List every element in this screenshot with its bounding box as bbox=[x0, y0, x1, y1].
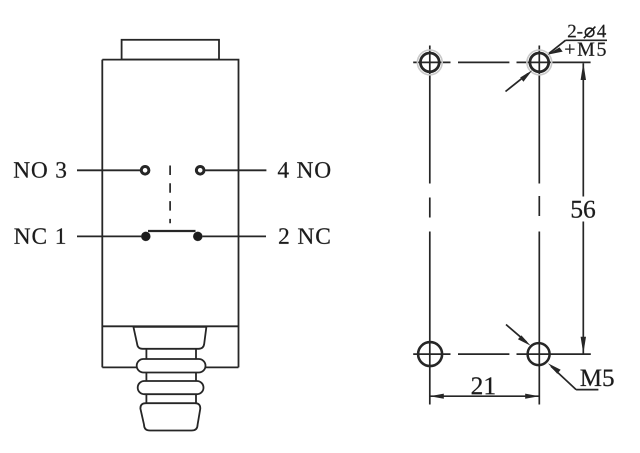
dimension 56 line bbox=[582, 63, 584, 353]
vertical centerline right bbox=[538, 46, 540, 405]
label 4 NO bbox=[278, 162, 330, 178]
arrow up (56 top) bbox=[581, 63, 586, 80]
plunger bottom cap bbox=[140, 403, 200, 430]
body lower divider line bbox=[102, 325, 238, 327]
plunger ring 2 bbox=[138, 381, 204, 394]
leader arrow at bottom-right hole lower edge bbox=[548, 363, 561, 373]
body bottom edge bbox=[102, 366, 137, 368]
tap arrow lower-left of top-right hole bbox=[506, 74, 529, 92]
plunger neck 1 bbox=[145, 349, 147, 360]
NC 2 terminal line right bbox=[203, 235, 267, 237]
arrow left (21) bbox=[430, 394, 444, 399]
leader arrow at top-right hole upper edge bbox=[547, 47, 562, 54]
NO 4 terminal line right bbox=[204, 169, 266, 171]
hole top-right bbox=[530, 53, 549, 72]
diameter symbol bbox=[585, 28, 594, 37]
NC bridge bar bbox=[148, 230, 196, 232]
hole top-left bbox=[420, 53, 439, 72]
label NO 3 bbox=[14, 162, 66, 178]
horizontal centerline bottom row bbox=[413, 353, 591, 355]
switch body bbox=[102, 60, 238, 368]
leader 2-Ø4 diagonal bbox=[549, 40, 566, 53]
label 4 of 2-diam4 bbox=[597, 25, 606, 38]
NO contact circle left bbox=[141, 167, 149, 175]
plunger neck 3 bbox=[145, 394, 147, 403]
tap arrow upper-left of bottom-right hole bbox=[506, 325, 527, 343]
NC contact dot left bbox=[141, 232, 150, 241]
NC 1 terminal line left bbox=[77, 235, 141, 237]
leader 2-Ø4/+M5 underline bbox=[566, 39, 608, 41]
horizontal centerline top row bbox=[413, 61, 590, 63]
NC contact dot right bbox=[193, 232, 202, 241]
label M5 bbox=[581, 370, 614, 387]
leader M5 bbox=[551, 366, 598, 389]
arrow down (56 bottom) bbox=[581, 337, 586, 354]
label NC 1 bbox=[14, 228, 65, 244]
vertical centerline left (long dash short dash) bbox=[429, 46, 431, 405]
label 21 bbox=[472, 377, 495, 394]
plunger ring 1 bbox=[137, 359, 206, 373]
hole top-right halo bbox=[527, 50, 552, 75]
label +M5 bbox=[565, 43, 606, 56]
dimension 21 line bbox=[430, 395, 539, 397]
hole bottom-right bbox=[528, 343, 550, 365]
hole top-left halo bbox=[417, 50, 442, 75]
hole bottom-left bbox=[418, 342, 442, 366]
NO 3 terminal line left bbox=[77, 169, 141, 171]
label 56 bbox=[572, 201, 595, 218]
label 2- of 2-diam4 bbox=[568, 25, 582, 38]
label 2 NC bbox=[279, 228, 330, 244]
plunger boot trapezoid bbox=[133, 327, 206, 349]
actuator dashed line bbox=[169, 166, 171, 224]
arrow right (21) bbox=[525, 394, 539, 399]
switch top cap bbox=[122, 40, 219, 60]
NO contact circle right bbox=[196, 167, 204, 175]
plunger neck 2 bbox=[145, 373, 147, 382]
